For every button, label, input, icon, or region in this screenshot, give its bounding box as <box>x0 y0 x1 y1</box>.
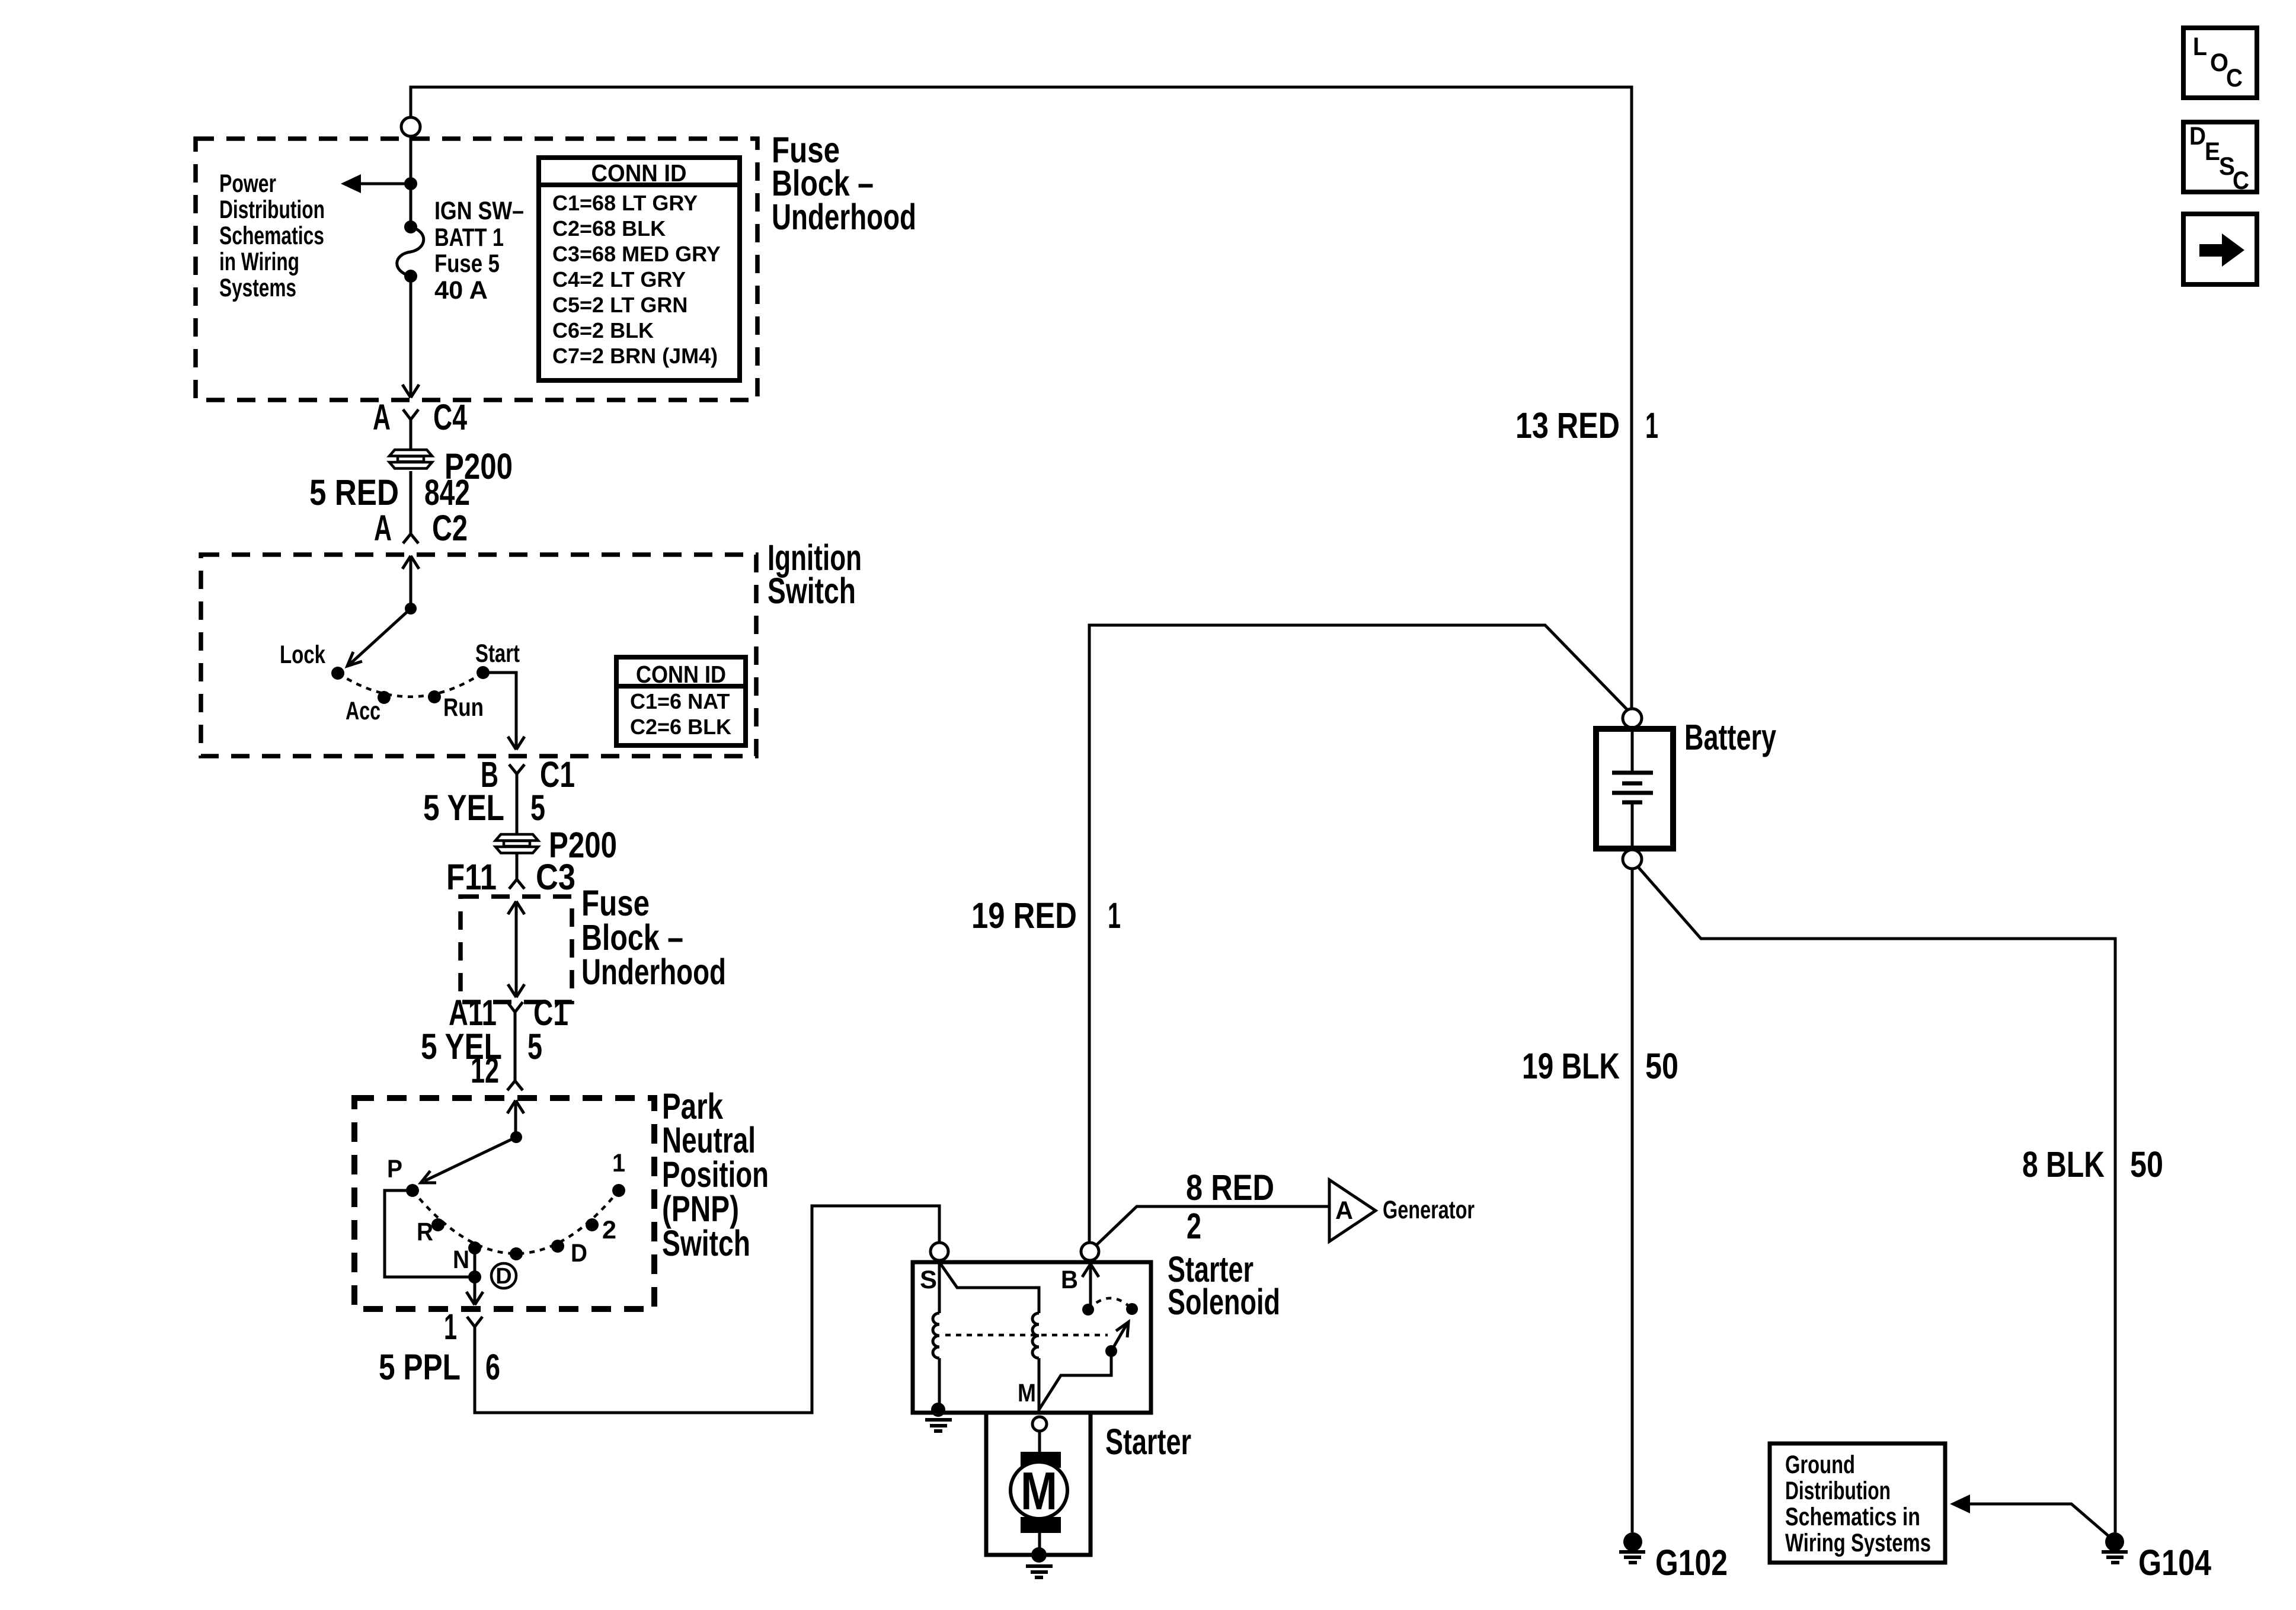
svg-text:L: L <box>2193 33 2207 61</box>
svg-text:A: A <box>373 397 391 437</box>
svg-text:IGN SW–: IGN SW– <box>434 197 524 225</box>
svg-text:C: C <box>2226 64 2243 92</box>
svg-text:C2: C2 <box>432 508 468 548</box>
connector C4 symbol <box>403 409 418 450</box>
fuse IGN SW-BATT 1 Fuse 5 40 A <box>404 220 417 233</box>
CONN ID table ignition switch <box>616 657 746 745</box>
solenoid fixed contact right <box>1126 1303 1138 1315</box>
wire 5 PPL 6 to solenoid S <box>475 1206 939 1413</box>
contact D <box>551 1240 564 1253</box>
svg-text:P: P <box>387 1155 402 1183</box>
svg-text:Switch: Switch <box>768 571 856 611</box>
svg-text:2: 2 <box>1187 1206 1201 1246</box>
arrow to power distribution schematics <box>341 174 361 193</box>
battery top terminal <box>1623 709 1642 728</box>
wire: feed to fuse 5 <box>410 136 412 224</box>
battery box <box>1596 729 1673 849</box>
generator off-page triangle <box>1329 1180 1376 1241</box>
starter solenoid box <box>913 1262 1151 1413</box>
svg-text:C4=2 LT GRY: C4=2 LT GRY <box>552 267 686 292</box>
svg-text:842: 842 <box>424 472 470 513</box>
svg-text:C1=68 LT GRY: C1=68 LT GRY <box>552 191 698 215</box>
svg-text:Underhood: Underhood <box>772 197 916 237</box>
wire 19 RED 1 battery to solenoid B <box>1089 625 1627 1243</box>
splice P200 second <box>495 825 617 865</box>
svg-text:N: N <box>453 1246 469 1274</box>
wire 19 BLK 50 to G102 <box>1631 869 1634 1532</box>
CONN ID table fuse block <box>539 158 740 380</box>
Ignition Switch dashed box <box>201 555 756 756</box>
circled D contact <box>491 1263 516 1288</box>
svg-text:G102: G102 <box>1655 1542 1728 1583</box>
svg-text:Acc: Acc <box>346 697 380 725</box>
svg-text:Lock: Lock <box>280 641 325 669</box>
contact Start <box>477 666 490 679</box>
svg-text:C3=68 MED GRY: C3=68 MED GRY <box>552 242 721 266</box>
svg-text:8 BLK: 8 BLK <box>2022 1144 2105 1185</box>
svg-text:5 YEL: 5 YEL <box>423 788 504 828</box>
wire Start contact to pin B <box>483 673 516 749</box>
solenoid moving contact arm <box>1111 1324 1127 1351</box>
svg-text:M: M <box>1021 1462 1057 1521</box>
svg-text:Power: Power <box>219 169 276 198</box>
Park Neutral Position Switch dashed box <box>354 1098 654 1309</box>
solenoid moving contact node <box>1105 1345 1117 1357</box>
svg-text:BATT 1: BATT 1 <box>434 223 504 252</box>
wire stub power distribution <box>360 183 411 185</box>
DESC legend box <box>2183 122 2257 195</box>
svg-text:5: 5 <box>527 1026 542 1067</box>
svg-text:6: 6 <box>485 1347 500 1387</box>
svg-text:C4: C4 <box>433 397 467 437</box>
svg-text:Generator: Generator <box>1383 1196 1475 1224</box>
terminal circle B <box>1081 1243 1099 1260</box>
ground G104 <box>2105 1532 2124 1551</box>
svg-text:50: 50 <box>1645 1046 1678 1086</box>
svg-text:Schematics: Schematics <box>219 222 324 250</box>
svg-text:C6=2 BLK: C6=2 BLK <box>552 318 654 343</box>
svg-text:S: S <box>920 1266 937 1294</box>
wire 5 RED 842 <box>410 471 412 534</box>
svg-text:Systems: Systems <box>219 274 296 302</box>
PNP pivot node <box>510 1131 522 1143</box>
PNP wiper arm <box>424 1137 516 1181</box>
motor circle M <box>1011 1462 1067 1519</box>
svg-text:Solenoid: Solenoid <box>1168 1282 1280 1322</box>
Fuse Block - Underhood dashed box <box>196 139 757 400</box>
svg-text:50: 50 <box>2130 1144 2163 1185</box>
junction node to power distribution <box>404 177 417 190</box>
wire 8 BLK 50 to G104 <box>1638 866 2115 1532</box>
svg-text:40 A: 40 A <box>434 276 488 305</box>
dashed throw arc <box>1088 1298 1132 1310</box>
dashed arc PNP contacts <box>412 1190 619 1254</box>
terminal circle S <box>930 1243 948 1260</box>
wire: fuse to connector C4 <box>410 276 412 398</box>
svg-text:D: D <box>2189 122 2206 151</box>
ignition pivot node <box>405 603 417 614</box>
dashed plunger link <box>945 1334 1108 1337</box>
dashed detent arc <box>338 673 483 697</box>
svg-text:Schematics in: Schematics in <box>1785 1503 1920 1531</box>
svg-text:5 PPL: 5 PPL <box>379 1347 461 1387</box>
svg-text:C5=2 LT GRN: C5=2 LT GRN <box>552 293 687 317</box>
svg-text:Switch: Switch <box>662 1223 750 1263</box>
battery bottom terminal <box>1623 850 1642 869</box>
connector symbol below PNP <box>467 1317 482 1339</box>
svg-text:CONN ID: CONN ID <box>636 661 726 688</box>
svg-text:C7=2 BRN (JM4): C7=2 BRN (JM4) <box>552 344 718 368</box>
svg-text:Distribution: Distribution <box>219 196 325 224</box>
svg-text:5: 5 <box>530 788 545 828</box>
battery plates <box>1631 729 1634 773</box>
arrow out of fuse block <box>402 385 419 398</box>
svg-text:F11: F11 <box>446 857 497 897</box>
arrow legend box <box>2183 214 2257 284</box>
svg-text:C3: C3 <box>536 857 575 897</box>
solenoid fixed contact left <box>1082 1304 1094 1315</box>
svg-text:1: 1 <box>1108 895 1121 936</box>
junction N output <box>468 1270 481 1283</box>
svg-text:CONN ID: CONN ID <box>591 159 687 187</box>
svg-text:Fuse 5: Fuse 5 <box>434 249 500 278</box>
svg-text:A: A <box>1335 1196 1353 1225</box>
svg-text:E: E <box>2205 137 2220 166</box>
svg-text:Battery: Battery <box>1684 717 1776 757</box>
svg-text:G104: G104 <box>2138 1542 2211 1583</box>
contact R <box>431 1218 445 1231</box>
arrow G104 to ground distribution box <box>1969 1504 2115 1541</box>
svg-text:D: D <box>571 1239 587 1267</box>
contact N <box>468 1241 481 1254</box>
svg-text:R: R <box>417 1218 433 1246</box>
arrow into ignition switch <box>402 556 419 609</box>
svg-text:1: 1 <box>1645 405 1658 446</box>
contact Lock <box>331 667 344 680</box>
svg-text:C2=68 BLK: C2=68 BLK <box>552 216 666 241</box>
svg-text:Starter: Starter <box>1105 1422 1191 1462</box>
terminal circle M <box>1032 1417 1047 1431</box>
svg-text:5 RED: 5 RED <box>309 472 399 513</box>
connector C1 symbol <box>509 764 525 834</box>
contact P <box>406 1184 419 1197</box>
splice P200 <box>389 446 513 486</box>
wire N contact to output <box>474 1248 477 1304</box>
svg-text:Distribution: Distribution <box>1785 1477 1891 1505</box>
contact Acc <box>378 691 391 704</box>
wire P loop to N output <box>385 1190 475 1277</box>
svg-text:C2=6 BLK: C2=6 BLK <box>630 715 731 739</box>
arrow into PNP switch <box>507 1100 524 1137</box>
svg-text:Start: Start <box>475 639 520 668</box>
svg-text:M: M <box>1018 1379 1036 1407</box>
svg-text:Ground: Ground <box>1785 1451 1855 1479</box>
svg-text:Underhood: Underhood <box>581 952 726 992</box>
ground G102 <box>1623 1532 1642 1551</box>
LOC legend box <box>2183 28 2257 98</box>
contact 2 <box>586 1218 599 1231</box>
ground hold-in coil <box>931 1403 945 1417</box>
wire motor to ground <box>1038 1532 1041 1548</box>
svg-text:12: 12 <box>471 1050 499 1090</box>
wire moving contact to M <box>1039 1351 1111 1410</box>
connector C2 symbol <box>403 534 418 543</box>
ground starter motor <box>1031 1547 1047 1563</box>
svg-text:B: B <box>1061 1266 1078 1294</box>
svg-text:2: 2 <box>602 1216 616 1244</box>
contact 1 <box>612 1184 625 1197</box>
svg-text:19 BLK: 19 BLK <box>1522 1046 1620 1086</box>
svg-text:19 RED: 19 RED <box>971 895 1077 936</box>
svg-text:1: 1 <box>612 1149 625 1177</box>
svg-text:in Wiring: in Wiring <box>219 248 299 276</box>
motor brush bottom <box>1021 1517 1061 1533</box>
svg-text:8 RED: 8 RED <box>1186 1167 1274 1208</box>
wire 8 RED 2 to generator <box>1095 1206 1329 1246</box>
arrow out of ignition switch <box>508 737 525 750</box>
Ground Distribution Schematics box <box>1770 1443 1945 1563</box>
starter housing <box>986 1413 1091 1555</box>
svg-text:C: C <box>2233 167 2249 195</box>
connector C3 symbol <box>509 853 525 889</box>
connector symbol into PNP <box>507 1081 523 1090</box>
wire M to motor <box>1038 1431 1041 1453</box>
svg-text:Run: Run <box>443 693 484 722</box>
connector circle fuse block feed <box>401 117 420 136</box>
double arrow through fuse block <box>508 901 525 997</box>
pull-in coil <box>939 1262 1039 1313</box>
svg-text:D: D <box>495 1264 511 1289</box>
contact Run <box>428 690 441 703</box>
wire: battery positive top bus <box>411 87 1632 709</box>
svg-text:C1=6 NAT: C1=6 NAT <box>630 689 730 713</box>
svg-text:A: A <box>374 508 392 548</box>
hold-in coil <box>938 1262 941 1313</box>
solenoid B contact arrow <box>1082 1264 1099 1307</box>
Fuse Block pass-through dashed box <box>461 897 572 1002</box>
connector C1 symbol second <box>507 1002 523 1081</box>
ignition wiper arm <box>350 609 411 664</box>
svg-text:13 RED: 13 RED <box>1515 405 1620 446</box>
motor brush top <box>1021 1452 1061 1468</box>
contact mid <box>510 1247 523 1260</box>
svg-text:1: 1 <box>444 1307 457 1347</box>
arrow out of PNP switch <box>466 1292 483 1305</box>
svg-text:Wiring Systems: Wiring Systems <box>1785 1529 1931 1557</box>
